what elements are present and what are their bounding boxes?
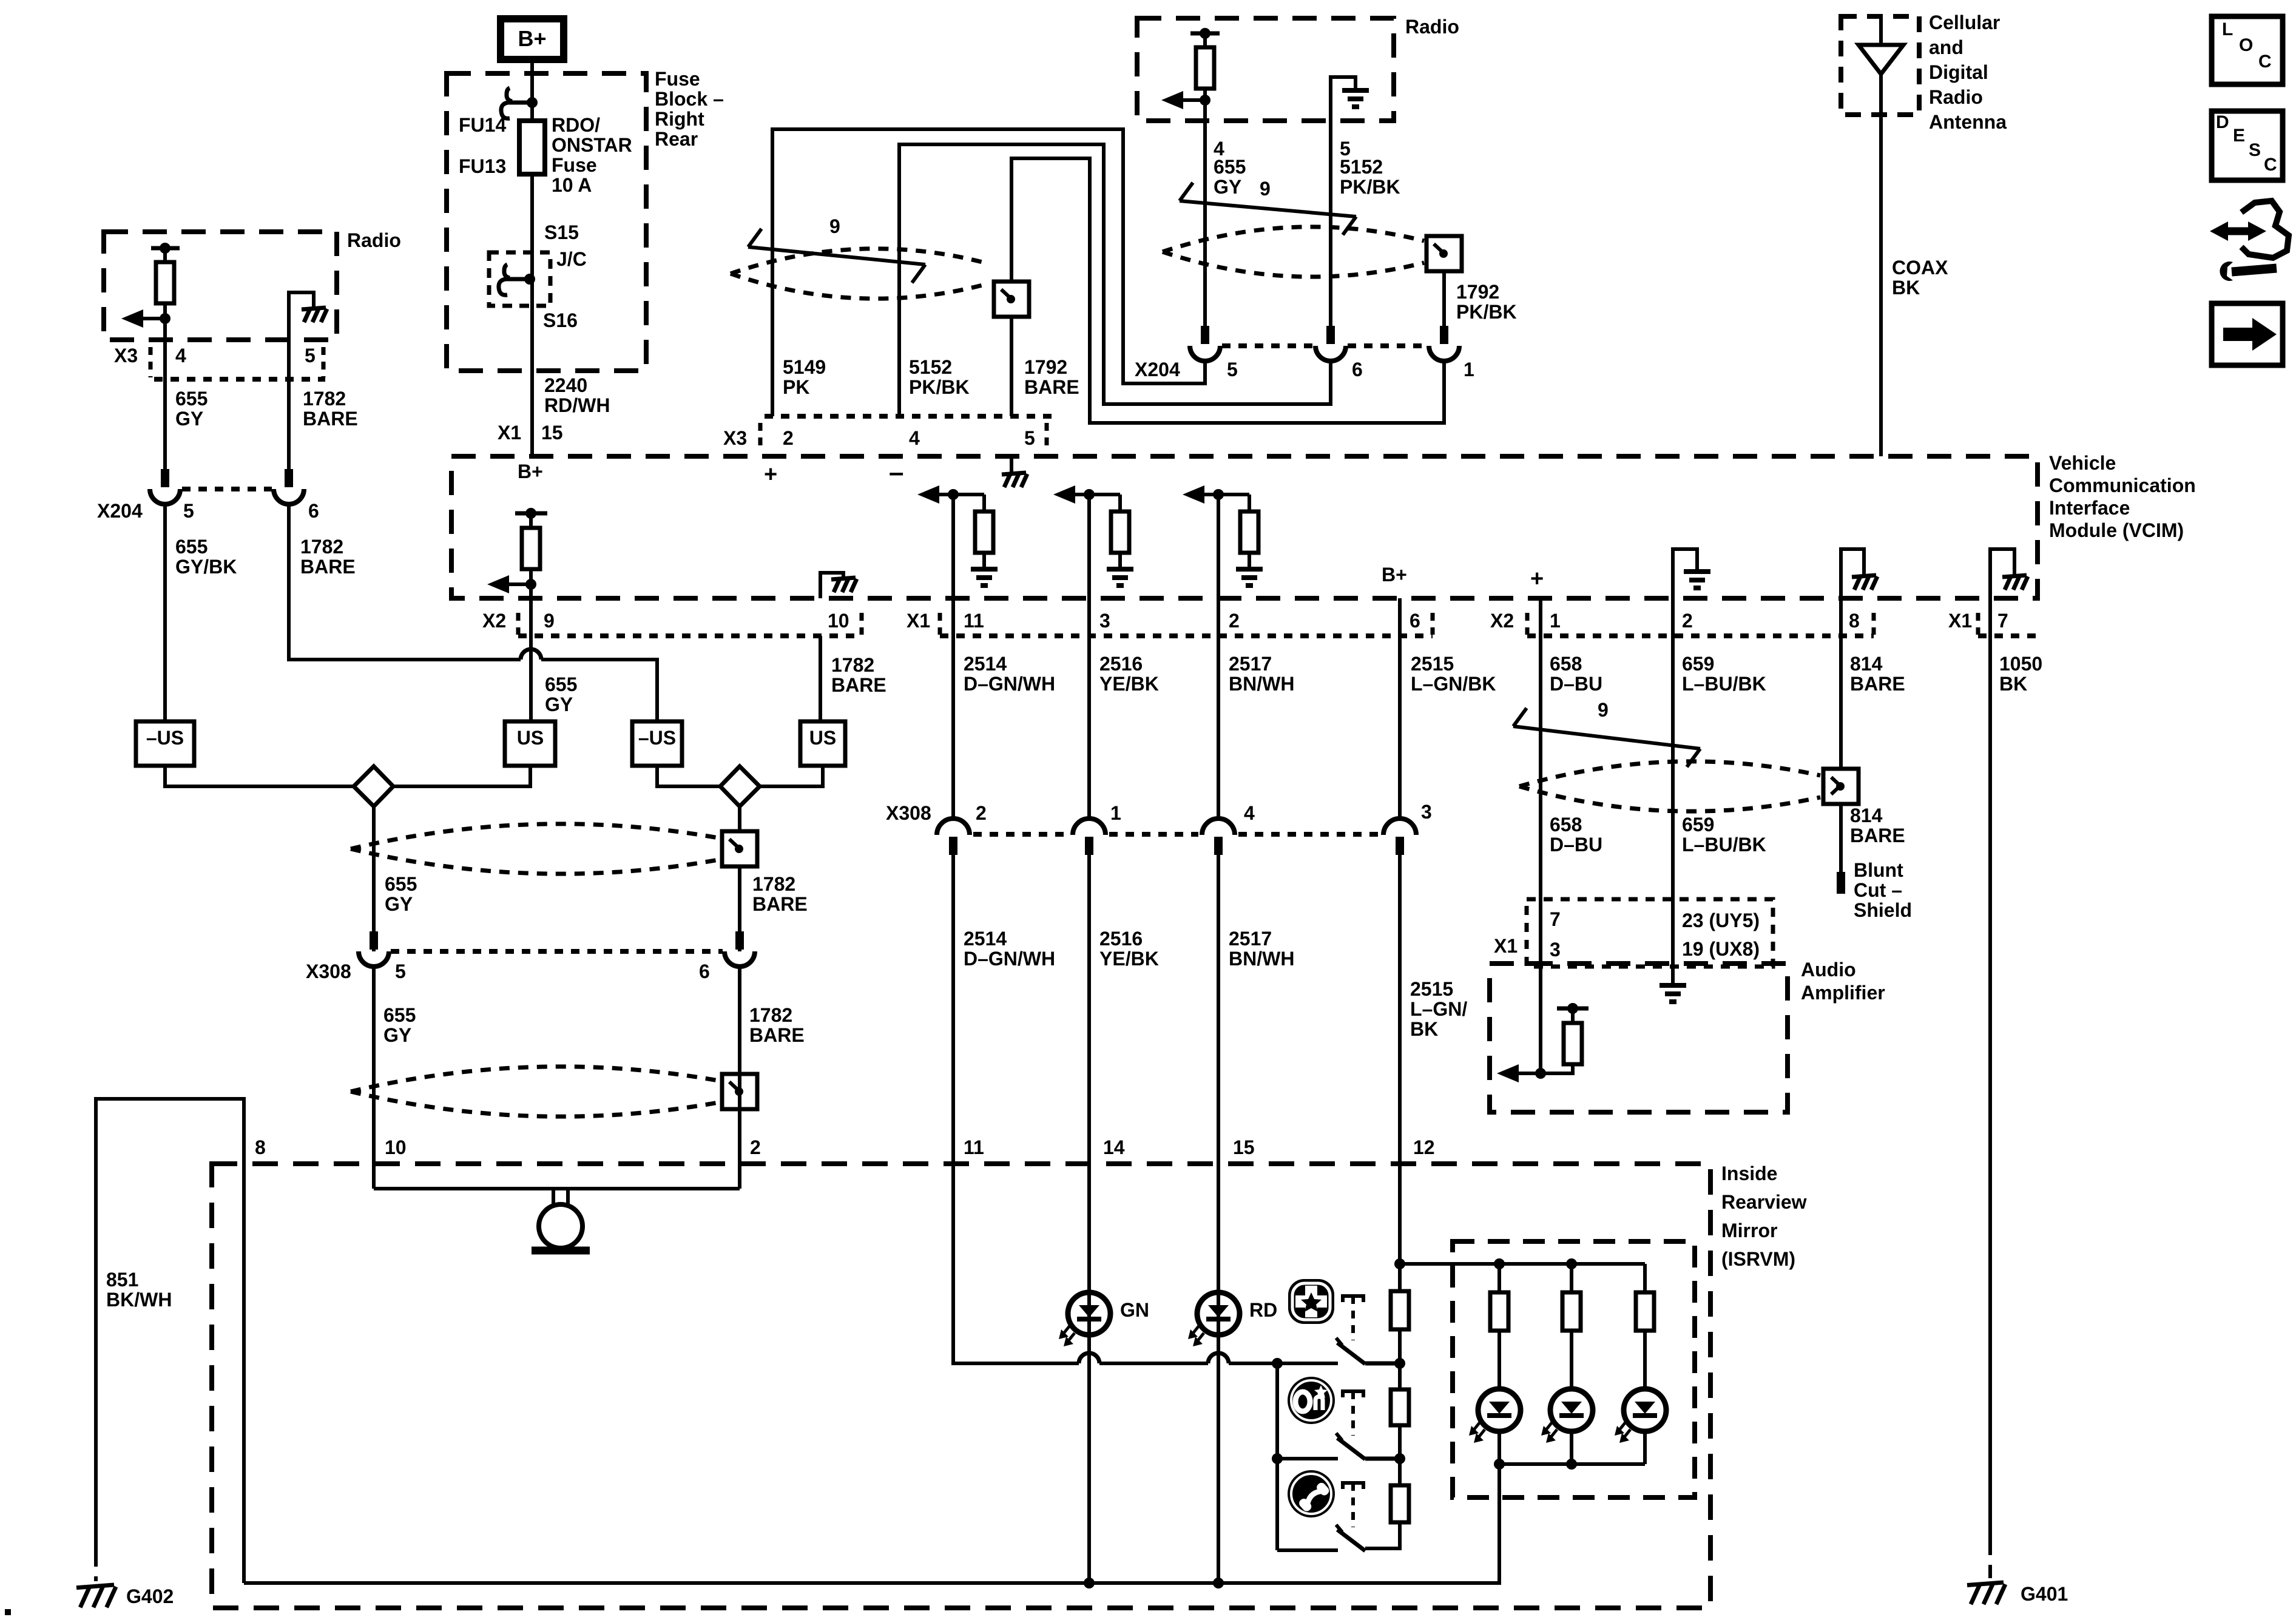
svg-text:(ISRVM): (ISRVM) — [1721, 1248, 1795, 1270]
svg-text:X1: X1 — [1494, 935, 1518, 957]
svg-text:5: 5 — [395, 960, 406, 982]
svg-text:5: 5 — [1024, 427, 1035, 449]
mirror mic wire pin2 — [738, 1164, 741, 1189]
svg-text:2: 2 — [976, 802, 987, 824]
svg-text:C: C — [2258, 52, 2272, 72]
splice diamond right — [720, 766, 760, 806]
wire COAX BK — [1879, 74, 1883, 456]
svg-text:9: 9 — [1260, 178, 1271, 200]
wire X1-6 2515 — [1398, 598, 1402, 636]
svg-text:L–GN/: L–GN/ — [1410, 998, 1467, 1020]
wire X204-1 to shield (1792) — [1011, 158, 1444, 423]
VCIM dashed box — [451, 456, 2038, 598]
wire 851 BK/WH to G402 — [96, 1099, 244, 1553]
emergency button icon — [1288, 1279, 1334, 1324]
cluster resistor 1 — [1497, 1264, 1501, 1292]
svg-text:BARE: BARE — [303, 408, 358, 430]
svg-text:BARE: BARE — [1850, 673, 1905, 695]
resistor R-radio2 — [1203, 33, 1207, 47]
svg-text:PK/BK: PK/BK — [909, 376, 970, 398]
wire 1050 BK — [1988, 636, 1992, 1542]
stray mark bottom-left — [5, 1609, 11, 1615]
cluster resistor 2 — [1570, 1264, 1573, 1292]
svg-text:X1: X1 — [907, 610, 930, 632]
wire 2516 YE/BK upper — [1087, 636, 1091, 819]
svg-text:Interface: Interface — [2049, 497, 2130, 519]
LED cluster inner dashed box — [1453, 1241, 1695, 1497]
svg-text:GY/BK: GY/BK — [175, 556, 237, 578]
audio amplifier dashed box — [1490, 964, 1788, 1112]
svg-text:2: 2 — [750, 1136, 761, 1158]
svg-text:12: 12 — [1413, 1136, 1435, 1158]
svg-text:O: O — [2239, 35, 2253, 55]
svg-text:6: 6 — [308, 500, 319, 522]
arrow output VCIM for wire 2514 — [930, 493, 984, 496]
wire radio2 pin4 655 GY — [1203, 100, 1207, 326]
svg-text:655: 655 — [1214, 156, 1246, 178]
wire X308-6 down to mirror — [738, 967, 741, 1189]
svg-text:1782: 1782 — [752, 873, 795, 895]
svg-text:BK: BK — [1892, 277, 1920, 299]
cluster LED 1 — [1478, 1389, 1521, 1431]
svg-text:G401: G401 — [2021, 1583, 2068, 1605]
resistor R-vcim-2517 — [1248, 495, 1251, 511]
wire X2-8 814 — [1839, 598, 1843, 636]
resistor R-vcim-B+ — [529, 513, 533, 528]
svg-text:19 (UX8): 19 (UX8) — [1682, 938, 1760, 960]
svg-text:S16: S16 — [543, 309, 578, 331]
svg-text:6: 6 — [1410, 610, 1420, 632]
blunt cut stub 814 — [1837, 872, 1845, 894]
svg-text:L–BU/BK: L–BU/BK — [1682, 673, 1766, 695]
svg-text:YE/BK: YE/BK — [1099, 948, 1159, 970]
shield terminator box mirror upper — [722, 831, 757, 866]
svg-text:and: and — [1929, 36, 1963, 58]
svg-text:GY: GY — [175, 408, 203, 430]
svg-text:6: 6 — [699, 960, 710, 982]
bus tap S-curl at fuse block — [508, 101, 532, 105]
svg-text:BARE: BARE — [300, 556, 356, 578]
svg-text:Shield: Shield — [1854, 899, 1912, 921]
svg-text:814: 814 — [1850, 653, 1883, 675]
B+ terminal box — [501, 19, 564, 59]
X2 right row dotted line — [1527, 633, 1874, 638]
cluster LED 2 — [1550, 1389, 1593, 1431]
svg-text:Vehicle: Vehicle — [2049, 452, 2116, 474]
svg-text:L–BU/BK: L–BU/BK — [1682, 834, 1766, 856]
svg-text:BARE: BARE — [1850, 825, 1905, 846]
svg-text:X308: X308 — [886, 802, 931, 824]
twisted pair lens (658/659) — [1519, 761, 1820, 811]
svg-text:X204: X204 — [1135, 359, 1180, 380]
resistor chain R2 — [1391, 1389, 1409, 1425]
cluster LED 3 — [1624, 1389, 1666, 1431]
junction block J/C dashed box — [489, 252, 550, 306]
wire pin11 2514 to feed — [953, 1164, 1338, 1363]
supply tick amp resistor — [1557, 1007, 1589, 1011]
cluster resistor 3 — [1643, 1264, 1647, 1292]
svg-text:658: 658 — [1550, 814, 1582, 836]
wire 2514 lower — [951, 852, 955, 1164]
svg-text:GY: GY — [545, 694, 573, 715]
svg-text:Blunt: Blunt — [1854, 859, 1903, 881]
switch row3 feed — [1277, 1548, 1338, 1552]
svg-text:X2: X2 — [1490, 610, 1514, 632]
chassis ground G402 — [76, 1585, 114, 1588]
svg-text:Audio: Audio — [1801, 959, 1856, 981]
X204 row dashed line (top) — [1222, 343, 1314, 348]
svg-text:659: 659 — [1682, 653, 1714, 675]
wire splice2 to shield box — [738, 806, 741, 831]
svg-text:1792: 1792 — [1024, 356, 1067, 378]
wire 658 through amp connector — [1539, 899, 1542, 1073]
svg-text:1782: 1782 — [831, 654, 874, 676]
svg-text:5: 5 — [183, 500, 194, 522]
svg-text:S: S — [2249, 140, 2261, 160]
svg-text:658: 658 — [1550, 653, 1582, 675]
svg-text:Digital: Digital — [1929, 61, 1988, 83]
wire 658 D-BU — [1539, 636, 1542, 899]
wire X2-1 658 — [1539, 598, 1542, 636]
inline connector X204-6 — [1326, 326, 1335, 344]
svg-text:3: 3 — [1550, 939, 1561, 960]
svg-text:US: US — [517, 727, 544, 749]
wire X1-7 1050 — [1988, 598, 1992, 636]
svg-text:BK: BK — [1410, 1018, 1438, 1040]
twisted pair lens (radio2) — [1163, 227, 1424, 277]
wire X2-2 659 — [1671, 598, 1675, 636]
svg-text:PK/BK: PK/BK — [1456, 301, 1517, 323]
arrow icon box — [2212, 303, 2283, 365]
svg-text:2: 2 — [783, 427, 794, 449]
Inside Rearview Mirror dashed box — [212, 1164, 1710, 1608]
svg-text:4: 4 — [909, 427, 920, 449]
svg-text:B+: B+ — [518, 26, 546, 51]
inline connector X204 pin 6 (left) — [285, 469, 293, 487]
X1-7 row dotted line — [1978, 633, 2038, 638]
svg-text:Antenna: Antenna — [1929, 111, 2007, 133]
svg-text:D–GN/WH: D–GN/WH — [964, 948, 1055, 970]
US box 2 — [800, 721, 845, 766]
antenna dashed box — [1841, 16, 1919, 115]
resistor R-radio1 — [163, 248, 167, 262]
wire US2 to splice2 — [760, 766, 823, 786]
splice diamond left — [354, 766, 393, 806]
X1 row dotted line — [940, 633, 1433, 638]
svg-text:655: 655 — [385, 873, 417, 895]
radio internal supply tick — [151, 246, 180, 251]
svg-text:8: 8 — [1849, 610, 1860, 632]
wire splice to X308-5 — [372, 806, 376, 951]
GN LED — [1068, 1292, 1110, 1335]
wire 1782 BARE to -US — [289, 504, 657, 721]
X204 row dashed line (left) — [182, 487, 272, 491]
wire radio2 pin5 5152 — [1329, 121, 1332, 326]
-US box 2 — [632, 721, 682, 766]
earth ground radio2 — [1342, 88, 1369, 93]
svg-text:11: 11 — [964, 610, 984, 632]
svg-text:1: 1 — [1464, 359, 1474, 380]
svg-text:9: 9 — [544, 610, 555, 632]
svg-text:2514: 2514 — [964, 653, 1007, 675]
svg-text:BK/WH: BK/WH — [106, 1289, 172, 1311]
audio amp connector dotted box — [1527, 899, 1773, 967]
svg-text:Cellular: Cellular — [1929, 12, 2000, 33]
RD LED — [1197, 1292, 1240, 1335]
svg-text:1782: 1782 — [749, 1004, 792, 1026]
earth ground X2-2 inside VCIM — [1673, 549, 1697, 598]
svg-text:GY: GY — [385, 893, 413, 915]
svg-text:Rearview: Rearview — [1721, 1191, 1807, 1213]
svg-text:Fuse: Fuse — [552, 154, 597, 176]
svg-text:PK/BK: PK/BK — [1340, 176, 1400, 198]
resistor R-amp — [1571, 1008, 1575, 1023]
earth ground vcim 2514 — [971, 567, 998, 572]
svg-text:+: + — [764, 462, 777, 487]
shield terminator box 814 — [1823, 769, 1859, 804]
wire 655 GY/BK — [163, 504, 167, 721]
connector X3 radio1 dotted row — [154, 377, 325, 382]
switch 1 (emergency) — [1343, 1296, 1363, 1302]
wire 659 L-BU/BK — [1671, 636, 1675, 899]
LED cluster bottom bus — [1497, 1431, 1501, 1464]
svg-text:Module (VCIM): Module (VCIM) — [2049, 519, 2184, 541]
svg-text:E: E — [2233, 126, 2245, 146]
svg-text:Radio: Radio — [347, 229, 401, 251]
chassis ground X1-7 inside VCIM — [1990, 549, 2014, 598]
-US box 1 — [136, 721, 194, 766]
resistor R-vcim-2514 — [982, 495, 986, 511]
fuse FU13/FU14 RDO/ONSTAR 10A — [519, 121, 545, 174]
wire 2515 L-GN/BK upper — [1398, 636, 1402, 819]
svg-text:Block –: Block – — [655, 88, 724, 110]
wire pin14 through GN LED to rail — [1087, 1164, 1091, 1583]
svg-text:2514: 2514 — [964, 928, 1007, 950]
phone button icon — [1288, 1470, 1335, 1517]
svg-text:BARE: BARE — [1024, 376, 1079, 398]
inline connector X204-5 — [1201, 326, 1209, 344]
svg-text:L: L — [2222, 19, 2233, 39]
svg-text:23 (UY5): 23 (UY5) — [1682, 910, 1760, 931]
LED cluster top bus — [1400, 1262, 1645, 1266]
svg-text:10 A: 10 A — [552, 174, 592, 196]
svg-text:1: 1 — [1550, 610, 1561, 632]
svg-text:2517: 2517 — [1229, 653, 1272, 675]
svg-text:X3: X3 — [723, 427, 747, 449]
cluster return wire to rail — [1402, 1464, 1499, 1583]
resistor chain R3 — [1391, 1485, 1409, 1522]
svg-text:6: 6 — [1352, 359, 1363, 380]
svg-text:X1: X1 — [1948, 610, 1972, 632]
X308 row1 dashed line — [973, 832, 1069, 837]
svg-text:RD/WH: RD/WH — [544, 394, 610, 416]
wire fuse to junction S15 — [530, 174, 534, 371]
wire X2-10 1782 BARE — [819, 636, 822, 721]
wire pin12 2515 into ISRVM — [1398, 1164, 1402, 1264]
wire 1050 BK dashed tail to G401 — [1988, 1542, 1992, 1580]
wire 1792 PK/BK — [1442, 271, 1446, 326]
mic bus bar — [374, 1187, 740, 1190]
inline connector X308-1 — [1073, 819, 1106, 835]
arrow output VCIM for wire 2517 — [1195, 493, 1249, 496]
svg-text:Radio: Radio — [1405, 16, 1459, 38]
svg-text:C: C — [2264, 155, 2277, 175]
svg-text:4: 4 — [175, 345, 186, 366]
svg-text:Fuse: Fuse — [655, 68, 700, 90]
svg-text:US: US — [809, 727, 836, 749]
wire radio1 pin5 — [287, 340, 291, 469]
svg-text:D–BU: D–BU — [1550, 834, 1602, 856]
wire X204-5 to X3-2 (5149 PK) — [772, 129, 1205, 416]
svg-text:655: 655 — [545, 673, 577, 695]
svg-text:655: 655 — [175, 536, 208, 558]
wire US1 to splice — [393, 766, 530, 786]
svg-text:10: 10 — [385, 1136, 407, 1158]
svg-text:B+: B+ — [1382, 564, 1407, 586]
svg-text:2516: 2516 — [1099, 928, 1143, 950]
inline connector X308-5 — [370, 931, 378, 950]
svg-text:655: 655 — [383, 1004, 416, 1026]
wire 1782 to X308-6 — [738, 866, 741, 951]
svg-text:5149: 5149 — [783, 356, 826, 378]
svg-text:2240: 2240 — [544, 374, 587, 396]
svg-text:GY: GY — [1214, 176, 1241, 198]
wire pin8 to bottom rail — [242, 1164, 246, 1583]
svg-text:BARE: BARE — [752, 893, 808, 915]
svg-text:9: 9 — [1598, 699, 1609, 721]
antenna symbol — [1879, 19, 1883, 45]
svg-text:RDO/: RDO/ — [552, 114, 600, 136]
wire 2517 lower — [1217, 852, 1220, 1164]
US box 1 — [505, 721, 555, 766]
wire 659 through amp connector — [1671, 899, 1675, 985]
shield terminator box 1792 PK/BK — [1427, 236, 1462, 271]
svg-text:10: 10 — [828, 610, 849, 632]
wire pin15 through RD LED to rail — [1217, 1164, 1220, 1583]
svg-text:5: 5 — [1227, 359, 1238, 380]
svg-text:FU13: FU13 — [459, 155, 506, 177]
crossed-wires arrow 9 (658/659) — [1513, 726, 1700, 749]
svg-text:5152: 5152 — [909, 356, 952, 378]
bus tap curl S15/S16 — [505, 277, 530, 282]
crossed-wires arrow 9 (radio2) — [1180, 201, 1356, 217]
wire 2515 lower — [1398, 852, 1402, 1164]
svg-text:BK: BK — [1999, 673, 2027, 695]
svg-text:D–GN/WH: D–GN/WH — [964, 673, 1055, 695]
crossed-wires arrow 9 (X3 wires) — [748, 247, 925, 265]
arrow output VCIM for wire 2516 — [1065, 493, 1120, 496]
svg-text:Cut –: Cut – — [1854, 879, 1902, 901]
switch 2 (OnStar) — [1343, 1391, 1363, 1397]
svg-text:655: 655 — [175, 388, 208, 410]
svg-text:–US: –US — [146, 727, 184, 749]
inline connector X308-6 — [735, 931, 744, 950]
switch 3 (phone) — [1343, 1483, 1363, 1489]
inline connector X308-4 — [1202, 819, 1235, 835]
svg-text:FU14: FU14 — [459, 114, 506, 136]
svg-text:COAX: COAX — [1892, 257, 1948, 279]
resistor R-vcim-2516 — [1118, 495, 1122, 511]
svg-text:814: 814 — [1850, 805, 1883, 826]
svg-text:Right: Right — [655, 108, 704, 130]
svg-text:2: 2 — [1682, 610, 1693, 632]
svg-text:GN: GN — [1120, 1299, 1149, 1321]
svg-text:BARE: BARE — [749, 1024, 805, 1046]
inline connector X204 pin 5 (left) — [161, 469, 169, 487]
svg-text:S15: S15 — [544, 221, 579, 243]
bottom rail in ISRVM — [244, 1581, 1402, 1585]
X308 row2 dashed line — [391, 949, 723, 954]
chassis ground G401 — [1967, 1582, 2004, 1585]
svg-text:Rear: Rear — [655, 128, 698, 150]
svg-text:1782: 1782 — [300, 536, 343, 558]
svg-text:BARE: BARE — [831, 674, 886, 696]
svg-text:7: 7 — [1997, 610, 2008, 632]
svg-text:1792: 1792 — [1456, 281, 1499, 303]
svg-text:Communication: Communication — [2049, 474, 2196, 496]
inline connector X308-2 — [937, 819, 970, 835]
svg-text:1: 1 — [1110, 802, 1121, 824]
wire 2517 BN/WH upper — [1217, 636, 1220, 819]
svg-text:5152: 5152 — [1340, 156, 1383, 178]
svg-text:X2: X2 — [482, 610, 506, 632]
wire X204-6 to X3-4 (5152 PK/BK) — [899, 144, 1331, 416]
svg-text:Mirror: Mirror — [1721, 1220, 1777, 1241]
arrow output amp — [1509, 1072, 1541, 1075]
svg-text:G402: G402 — [126, 1585, 174, 1607]
svg-text:4: 4 — [1244, 802, 1255, 824]
X3 connector row of VCIM — [765, 414, 1059, 419]
chassis ground X2-8 inside VCIM — [1841, 549, 1864, 598]
svg-text:2515: 2515 — [1411, 653, 1454, 675]
svg-text:X204: X204 — [97, 500, 143, 522]
wire X308-5 down to mirror — [372, 967, 376, 1189]
microphone — [553, 1189, 568, 1204]
navigation usage icon — [2241, 201, 2289, 258]
svg-text:2517: 2517 — [1229, 928, 1272, 950]
svg-text:GY: GY — [383, 1024, 411, 1046]
wire 2514 inside VCIM — [951, 495, 955, 636]
svg-text:851: 851 — [106, 1269, 138, 1291]
OnStar button icon — [1288, 1377, 1335, 1424]
svg-text:PK: PK — [783, 376, 809, 398]
svg-text:B+: B+ — [518, 461, 543, 482]
ground branch radio2 — [1331, 77, 1356, 121]
svg-text:X308: X308 — [306, 960, 351, 982]
svg-text:5: 5 — [305, 345, 316, 366]
switch row2 feed — [1277, 1457, 1338, 1460]
wire 2516 inside VCIM — [1087, 495, 1091, 636]
Radio dashed box (left) — [104, 232, 337, 340]
wire 2516 lower — [1087, 852, 1091, 1164]
svg-text:2: 2 — [1229, 610, 1240, 632]
svg-text:1782: 1782 — [303, 388, 346, 410]
svg-text:Radio: Radio — [1929, 86, 1983, 108]
svg-text:J/C: J/C — [556, 248, 587, 270]
svg-text:YE/BK: YE/BK — [1099, 673, 1159, 695]
svg-text:L–GN/BK: L–GN/BK — [1411, 673, 1496, 695]
svg-text:3: 3 — [1099, 610, 1110, 632]
svg-text:1050: 1050 — [1999, 653, 2042, 675]
switch link vertical — [1275, 1363, 1279, 1550]
arrow output radio2 — [1173, 98, 1205, 102]
chassis ground in radio1 — [302, 308, 326, 309]
svg-text:15: 15 — [1233, 1136, 1255, 1158]
resistor chain R1 — [1398, 1264, 1402, 1291]
svg-text:7: 7 — [1550, 908, 1561, 930]
svg-text:11: 11 — [964, 1136, 984, 1158]
Radio dashed box (top) — [1137, 18, 1394, 121]
